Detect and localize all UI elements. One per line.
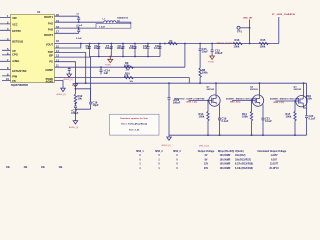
- svg-text:1uF: 1uF: [104, 71, 109, 75]
- capacitor C21: [262, 117, 273, 136]
- wire VOUT rail: [55, 43, 279, 45]
- junction dots FB rail: [85, 82, 305, 84]
- wire Q2 drain: [259, 83, 261, 96]
- svg-text:20.46*10: 20.46*10: [269, 167, 279, 170]
- svg-text:8V: 8V: [205, 159, 208, 161]
- svg-text:MS0_3 [1]: MS0_3 [1]: [274, 102, 284, 104]
- ground AGND bottom rail: [162, 135, 172, 147]
- wire BOOT1: [55, 15, 79, 17]
- U1 left pin names: [12, 16, 27, 83]
- transistor Q1: [174, 86, 220, 106]
- ground AGND under C13: [64, 72, 74, 81]
- ground PGND under C12: [208, 54, 214, 64]
- svg-text:Datasheet equation for Vout: Datasheet equation for Vout: [120, 117, 148, 120]
- capacitor C14: [100, 66, 111, 75]
- svg-text:PGND: PGND: [105, 65, 111, 67]
- svg-text:COMP: COMP: [45, 68, 53, 72]
- U1 left pin stubs: [0, 18, 11, 81]
- resistor R9 inline: [124, 61, 133, 72]
- svg-text:BST/SLB: BST/SLB: [12, 39, 23, 43]
- svg-text:AGND_[1]: AGND_[1]: [69, 126, 79, 129]
- resistor R15: [259, 38, 268, 48]
- svg-text:100k: 100k: [306, 97, 312, 101]
- svg-text:100uF: 100uF: [173, 100, 181, 104]
- svg-text:0V: 0V: [205, 155, 208, 157]
- svg-text:20V: 20V: [204, 168, 209, 170]
- svg-text:100k: 100k: [286, 114, 292, 118]
- op-amp U1: [11, 10, 55, 87]
- table row 4: [139, 167, 279, 170]
- svg-text:VBD_UR: VBD_UR: [243, 18, 252, 20]
- svg-text:P_UR_DADS: P_UR_DADS: [272, 13, 296, 16]
- node P_UR_DADS: [272, 13, 296, 43]
- capacitor C12 electrolytic: [211, 44, 223, 56]
- wire pin PG down: [55, 62, 76, 89]
- svg-text:U1: U1: [37, 10, 41, 14]
- svg-text:MS0_1 [1]: MS0_1 [1]: [187, 101, 197, 103]
- svg-text:1.2457: 1.2457: [270, 154, 278, 157]
- wire pin ISN branch: [55, 57, 91, 101]
- svg-text:A/SEL: A/SEL: [12, 59, 20, 63]
- capacitor C16: [75, 101, 99, 110]
- svg-text:AGND: AGND: [72, 84, 78, 87]
- svg-text:VCC: VCC: [12, 23, 18, 27]
- table headers: [136, 150, 287, 153]
- capacitor C8: [117, 44, 125, 51]
- svg-text:0.1uF: 0.1uF: [265, 119, 272, 123]
- junction dots caps bottom: [98, 56, 149, 58]
- wire FB rail: [75, 82, 306, 84]
- svg-text:12V: 12V: [204, 164, 209, 166]
- svg-text:10pF: 10pF: [93, 103, 99, 107]
- svg-text:EXTA/SYNC: EXTA/SYNC: [12, 69, 27, 73]
- junction dots VOUT rail: [80, 43, 251, 45]
- resistor R12: [74, 94, 83, 104]
- svg-text:TOP: TOP: [48, 50, 53, 54]
- resistor R14: [242, 100, 253, 136]
- wire PH1: [55, 21, 104, 23]
- svg-text:VOUT: VOUT: [46, 42, 54, 46]
- table row 1: [139, 154, 278, 157]
- svg-text:EXT/5V: EXT/5V: [12, 29, 21, 33]
- svg-text:AGND: AGND: [46, 80, 54, 84]
- capacitor C5: [86, 44, 92, 51]
- wire Q2 gate stub: [232, 99, 253, 101]
- svg-text:0.1uF: 0.1uF: [309, 117, 316, 121]
- ground AGND left: [57, 88, 67, 96]
- svg-text:100k: 100k: [234, 45, 240, 49]
- capacitor C15: [199, 44, 209, 69]
- ground AGND at rail start: [72, 83, 78, 87]
- wire caps bottom rail: [90, 51, 161, 57]
- capacitor C6: [94, 44, 101, 51]
- svg-text:470pF: 470pF: [71, 111, 79, 115]
- capacitor C2: [76, 27, 82, 40]
- svg-text:744043100: 744043100: [117, 17, 129, 20]
- svg-text:10uF: 10uF: [94, 46, 100, 50]
- svg-text:PH1: PH1: [48, 21, 54, 25]
- table row 2: [139, 159, 277, 161]
- svg-text:ISP: ISP: [49, 53, 53, 57]
- svg-text:0.1uF: 0.1uF: [76, 38, 82, 40]
- wire Q3 drain: [303, 83, 305, 97]
- svg-text:0.1uF: 0.1uF: [222, 119, 229, 123]
- wire C17 to ground: [74, 109, 76, 121]
- U1 left pin numbers: [6, 14, 9, 81]
- capacitor C17: [71, 105, 79, 115]
- resistor R16: [233, 38, 242, 48]
- U1 right pin numbers: [56, 13, 59, 68]
- svg-text:Calculated Output Voltage: Calculated Output Voltage: [257, 150, 287, 153]
- svg-text:10k: 10k: [124, 74, 129, 78]
- svg-text:8.17k (R12//R18): 8.17k (R12//R18): [235, 164, 253, 166]
- wire C16 branch: [75, 89, 90, 101]
- svg-text:MS0_1: MS0_1: [136, 151, 144, 153]
- svg-text:100.00MR: 100.00MR: [220, 168, 231, 170]
- svg-text:MS0_B_[2]: MS0_B_[2]: [199, 145, 209, 147]
- wire BOOT2: [55, 32, 79, 34]
- svg-text:6.297: 6.297: [271, 159, 278, 161]
- U1 right pin names: [44, 15, 53, 83]
- svg-text:R(top (R1+R2)): R(top (R1+R2)): [218, 150, 235, 153]
- svg-text:100.00MR: 100.00MR: [220, 164, 231, 166]
- svg-text:100k: 100k: [242, 114, 248, 118]
- svg-text:100uF: 100uF: [117, 46, 125, 50]
- junction dots bottom rail: [207, 134, 296, 136]
- svg-text:10k (R12//R17): 10k (R12//R17): [235, 159, 251, 161]
- capacitor C7: [105, 44, 113, 51]
- wire P/W long: [55, 78, 190, 84]
- capacitor C18 electrolytic on FB rail: [168, 83, 181, 135]
- svg-text:13.2077: 13.2077: [270, 164, 279, 166]
- svg-text:1uF: 1uF: [86, 46, 91, 50]
- svg-text:PH2: PH2: [48, 28, 54, 32]
- svg-text:VIN: VIN: [12, 16, 16, 20]
- svg-text:Output Voltage: Output Voltage: [198, 150, 215, 153]
- wire Q1 gate stub: [189, 99, 210, 101]
- svg-text:10uF: 10uF: [202, 50, 208, 54]
- svg-text:FB: FB: [12, 79, 16, 83]
- svg-text:100k: 100k: [202, 70, 208, 74]
- svg-text:TRCLR_RLSO1: TRCLR_RLSO1: [217, 43, 234, 45]
- svg-text:MS0_2: MS0_2: [155, 151, 163, 153]
- wire Q1 drain: [215, 83, 217, 96]
- resistor R17: [286, 100, 297, 135]
- svg-text:6.13k (R12//R18): 6.13k (R12//R18): [235, 168, 253, 170]
- svg-text:0.1uF: 0.1uF: [154, 46, 161, 50]
- capacitor C23: [305, 114, 316, 121]
- resistor R8: [199, 68, 208, 83]
- svg-text:BOOT2: BOOT2: [44, 33, 53, 37]
- svg-text:100k: 100k: [124, 63, 130, 67]
- transistor Q2: [226, 86, 264, 106]
- inductor L1: [96, 17, 131, 29]
- svg-text:AGND_[1]: AGND_[1]: [57, 93, 67, 96]
- capacitor C13 on COMP: [68, 67, 71, 72]
- wire Q1 source: [219, 104, 221, 117]
- test point TP1: [237, 26, 251, 33]
- table row 3: [139, 164, 279, 166]
- svg-text:100k: 100k: [260, 45, 266, 49]
- wire Q3 source: [304, 105, 307, 108]
- capacitor C9: [129, 44, 137, 51]
- node FB chain: [75, 88, 77, 94]
- svg-text:R16: R16: [235, 38, 240, 42]
- svg-text:1uF: 1uF: [143, 46, 148, 50]
- svg-text:100.00MR: 100.00MR: [220, 159, 231, 161]
- svg-text:MS0_3: MS0_3: [173, 151, 181, 153]
- wire pin TOP up to rail: [55, 44, 81, 49]
- svg-text:MS0_2 [1]: MS0_2 [1]: [230, 101, 240, 103]
- wire right bus: [306, 83, 308, 135]
- svg-text:CPO: CPO: [12, 52, 18, 56]
- svg-text:P/W: P/W: [12, 74, 17, 78]
- wire Q3 gate stub: [276, 100, 297, 102]
- capacitor C10: [143, 44, 150, 51]
- svg-text:2N7002: 2N7002: [294, 89, 302, 91]
- svg-text:BOOT1: BOOT1: [44, 15, 53, 19]
- ground AGND bottom chain: [69, 121, 79, 129]
- svg-text:1.0uH: 1.0uH: [99, 26, 105, 28]
- resistor R13: [199, 100, 210, 136]
- capacitor C1: [77, 14, 83, 27]
- svg-text:100uF: 100uF: [105, 46, 113, 50]
- wire Q2 source: [262, 104, 264, 117]
- ground PGND caps row: [105, 57, 113, 67]
- svg-text:100k: 100k: [199, 114, 205, 118]
- wire L1 out: [116, 22, 131, 23]
- svg-text:Vout = Vref(1+(Rtop/Rbot)): Vout = Vref(1+(Rtop/Rbot)): [121, 123, 147, 126]
- resistor R6: [168, 40, 177, 44]
- wire COMP long: [55, 44, 185, 68]
- svg-text:2N7002: 2N7002: [207, 89, 215, 91]
- wire R12 to C17: [75, 103, 77, 105]
- datasheet note box: [110, 114, 160, 135]
- svg-text:PG: PG: [49, 60, 53, 64]
- title block text: [6, 167, 63, 169]
- wire bottom rail: [169, 134, 307, 136]
- svg-text:MMBT7002 - COMP w/ GND PAD: MMBT7002 - COMP w/ GND PAD: [174, 97, 205, 100]
- svg-text:10k: 10k: [78, 96, 83, 100]
- svg-text:2N7002: 2N7002: [250, 89, 258, 91]
- svg-text:R15: R15: [261, 38, 266, 42]
- capacitor C19: [218, 117, 229, 136]
- svg-text:100.00MR: 100.00MR: [220, 155, 231, 157]
- capacitor C11: [154, 44, 162, 51]
- wire FB pin to ground: [55, 81, 64, 89]
- svg-text:AGND_[1]: AGND_[1]: [64, 78, 74, 81]
- transistor Q3: [270, 86, 307, 107]
- svg-text:10k (R12): 10k (R12): [235, 155, 246, 157]
- wire PH2: [55, 27, 97, 29]
- svg-text:100uF: 100uF: [129, 46, 137, 50]
- svg-text:Vref = 1.25: Vref = 1.25: [129, 128, 140, 131]
- svg-text:TP1: TP1: [237, 30, 242, 34]
- svg-text:100uF: 100uF: [215, 51, 223, 55]
- svg-text:PGND: PGND: [208, 61, 214, 63]
- resistor R10 inline: [124, 72, 133, 79]
- svg-text:AGND_[1]: AGND_[1]: [162, 144, 172, 147]
- node VBD_UR: [243, 18, 252, 44]
- wire pin ISP to FB rail: [55, 53, 86, 84]
- svg-text:BQ25756RRVR: BQ25756RRVR: [11, 84, 28, 87]
- svg-text:R(both): R(both): [235, 150, 243, 153]
